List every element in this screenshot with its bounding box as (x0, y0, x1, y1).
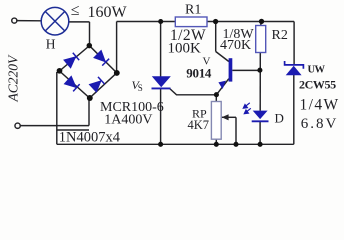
svg-text:2CW55: 2CW55 (299, 77, 336, 91)
svg-text:4K7: 4K7 (188, 118, 210, 132)
svg-text:100K: 100K (168, 40, 202, 56)
svg-text:S: S (138, 83, 143, 93)
svg-text:R1: R1 (185, 3, 201, 18)
svg-text:470K: 470K (220, 38, 251, 53)
svg-text:1A400V: 1A400V (104, 113, 152, 128)
svg-text:160W: 160W (88, 4, 128, 21)
svg-text:H: H (46, 37, 56, 52)
svg-text:6.8V: 6.8V (301, 116, 339, 132)
svg-text:9014: 9014 (186, 66, 212, 81)
svg-text:≤: ≤ (71, 2, 80, 19)
svg-text:R2: R2 (272, 28, 288, 43)
svg-text:UW: UW (308, 65, 326, 76)
svg-text:AC220V: AC220V (5, 54, 20, 103)
svg-text:D: D (275, 110, 284, 125)
svg-text:1/4W: 1/4W (300, 97, 340, 114)
svg-text:1N4007x4: 1N4007x4 (59, 130, 121, 146)
